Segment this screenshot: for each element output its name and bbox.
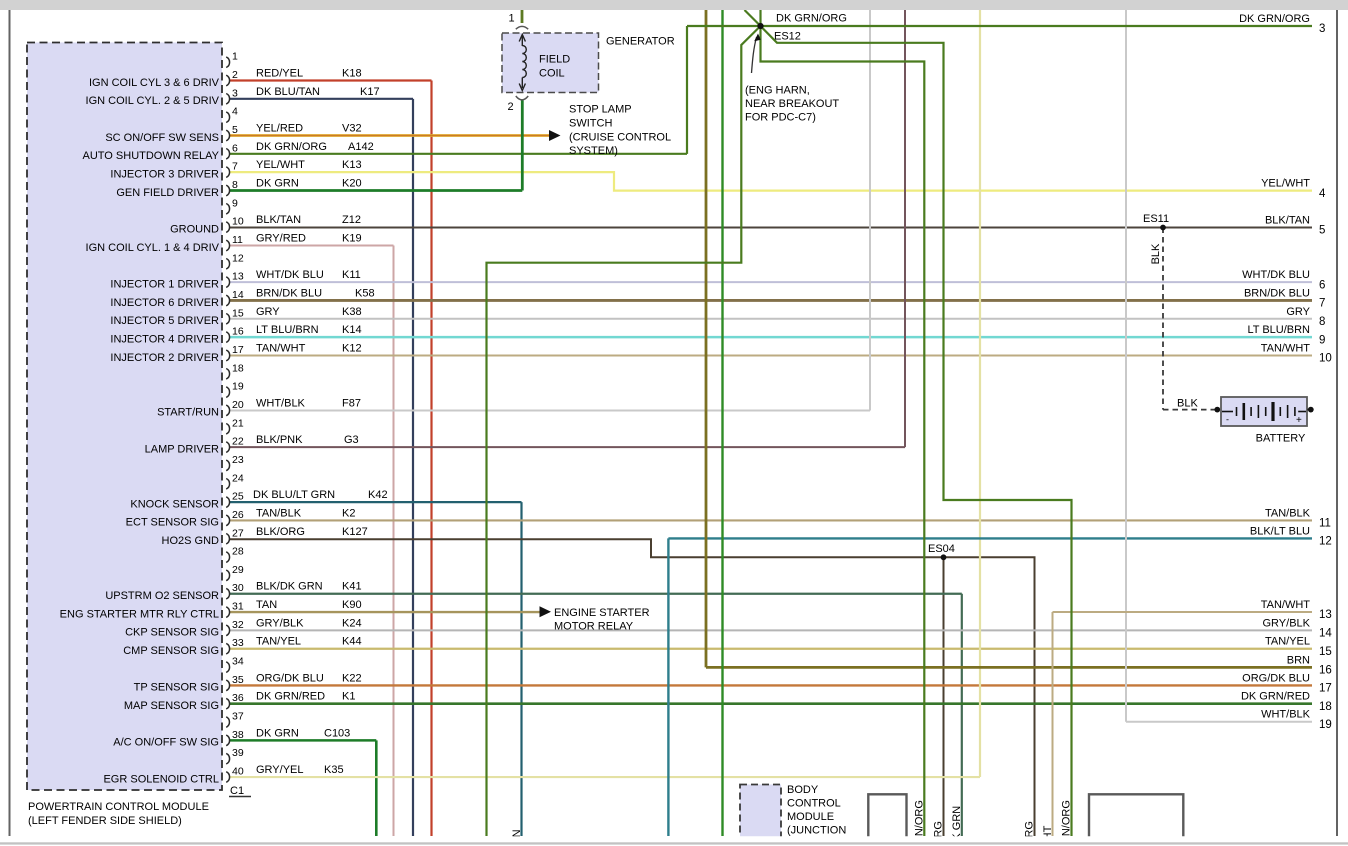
- svg-text:HO2S GND: HO2S GND: [162, 535, 220, 547]
- svg-text:10: 10: [232, 216, 244, 228]
- svg-text:BLK/DK GRN: BLK/DK GRN: [256, 581, 323, 593]
- svg-text:A/C ON/OFF SW SIG: A/C ON/OFF SW SIG: [113, 737, 219, 749]
- svg-text:K44: K44: [342, 636, 362, 648]
- svg-text:C103: C103: [324, 727, 350, 739]
- svg-text:GRY/BLK: GRY/BLK: [1263, 617, 1311, 629]
- svg-text:GRY: GRY: [1286, 306, 1310, 318]
- svg-text:YEL/WHT: YEL/WHT: [256, 159, 305, 171]
- svg-text:17: 17: [232, 344, 244, 356]
- svg-text:K58: K58: [355, 287, 375, 299]
- svg-text:16: 16: [232, 326, 244, 338]
- svg-text:START/RUN: START/RUN: [157, 407, 219, 419]
- svg-text:K24: K24: [342, 617, 362, 629]
- svg-text:F87: F87: [342, 397, 361, 409]
- svg-text:MODULE: MODULE: [787, 811, 834, 823]
- svg-text:ES11: ES11: [1143, 213, 1169, 225]
- svg-text:TAN/BLK: TAN/BLK: [256, 507, 302, 519]
- svg-text:FIELD: FIELD: [539, 54, 570, 66]
- svg-text:TAN/WHT: TAN/WHT: [256, 342, 306, 354]
- svg-text:33: 33: [232, 637, 244, 649]
- svg-text:K41: K41: [342, 581, 362, 593]
- svg-text:Z12: Z12: [342, 214, 361, 226]
- svg-text:UPSTRM O2 SENSOR: UPSTRM O2 SENSOR: [105, 590, 219, 602]
- svg-text:LAMP DRIVER: LAMP DRIVER: [145, 443, 219, 455]
- svg-text:ES12: ES12: [774, 31, 801, 43]
- svg-text:K38: K38: [342, 306, 362, 318]
- svg-text:26: 26: [232, 509, 244, 521]
- svg-text:ENG STARTER MTR RLY CTRL: ENG STARTER MTR RLY CTRL: [60, 608, 219, 620]
- svg-text:K18: K18: [342, 68, 362, 80]
- svg-text:31: 31: [232, 601, 244, 613]
- svg-text:K127: K127: [342, 526, 368, 538]
- svg-text:IGN COIL CYL. 2 & 5 DRIV: IGN COIL CYL. 2 & 5 DRIV: [86, 95, 220, 107]
- svg-text:BLK/TAN: BLK/TAN: [256, 214, 301, 226]
- svg-text:DK GRN: DK GRN: [256, 727, 299, 739]
- svg-text:WHT/DK BLU: WHT/DK BLU: [1242, 269, 1310, 281]
- svg-text:8: 8: [1319, 316, 1325, 328]
- svg-text:TAN/WHT: TAN/WHT: [1261, 342, 1311, 354]
- svg-text:29: 29: [232, 564, 244, 576]
- svg-text:GEN FIELD DRIVER: GEN FIELD DRIVER: [116, 187, 219, 199]
- svg-text:22: 22: [232, 436, 244, 448]
- svg-text:(CRUISE CONTROL: (CRUISE CONTROL: [569, 132, 671, 144]
- svg-text:BLK/PNK: BLK/PNK: [256, 434, 303, 446]
- svg-text:K2: K2: [342, 507, 355, 519]
- svg-text:(LEFT FENDER SIDE SHIELD): (LEFT FENDER SIDE SHIELD): [28, 815, 182, 827]
- svg-text:INJECTOR 1 DRIVER: INJECTOR 1 DRIVER: [110, 278, 219, 290]
- svg-text:GRY/BLK: GRY/BLK: [256, 617, 304, 629]
- svg-text:DK GRN/ORG: DK GRN/ORG: [256, 141, 327, 153]
- svg-text:K17: K17: [360, 86, 380, 98]
- svg-text:32: 32: [232, 619, 244, 631]
- svg-text:V32: V32: [342, 122, 362, 134]
- svg-text:K14: K14: [342, 324, 362, 336]
- svg-text:ORG/DK BLU: ORG/DK BLU: [256, 672, 324, 684]
- svg-text:4: 4: [1319, 188, 1326, 200]
- svg-text:36: 36: [232, 692, 244, 704]
- svg-text:INJECTOR 4 DRIVER: INJECTOR 4 DRIVER: [110, 333, 219, 345]
- svg-text:(ENG HARN,: (ENG HARN,: [745, 85, 810, 97]
- svg-text:14: 14: [1319, 628, 1332, 640]
- svg-text:BLK: BLK: [1150, 243, 1162, 264]
- svg-text:GRY/RED: GRY/RED: [256, 232, 306, 244]
- svg-text:GENERATOR: GENERATOR: [606, 36, 675, 48]
- svg-text:DK GRN: DK GRN: [256, 177, 299, 189]
- svg-text:9: 9: [1319, 334, 1325, 346]
- svg-text:14: 14: [232, 289, 244, 301]
- svg-text:16: 16: [1319, 665, 1332, 677]
- svg-text:3: 3: [1319, 23, 1325, 35]
- svg-text:SWITCH: SWITCH: [569, 118, 612, 130]
- svg-text:K13: K13: [342, 159, 362, 171]
- svg-text:BRN/DK BLU: BRN/DK BLU: [256, 287, 322, 299]
- svg-text:2: 2: [508, 101, 514, 113]
- svg-text:K22: K22: [342, 672, 362, 684]
- svg-text:YEL/WHT: YEL/WHT: [1261, 178, 1310, 190]
- svg-text:12: 12: [232, 252, 244, 264]
- svg-text:7: 7: [232, 161, 238, 173]
- svg-text:BLK/TAN: BLK/TAN: [1265, 215, 1310, 227]
- svg-text:3: 3: [232, 87, 238, 99]
- svg-text:TAN/YEL: TAN/YEL: [256, 636, 301, 648]
- svg-text:21: 21: [232, 417, 244, 429]
- svg-text:INJECTOR 2 DRIVER: INJECTOR 2 DRIVER: [110, 352, 219, 364]
- svg-text:C1: C1: [230, 785, 244, 797]
- svg-text:DK GRN/RED: DK GRN/RED: [1241, 691, 1310, 703]
- svg-text:37: 37: [232, 711, 244, 723]
- svg-text:17: 17: [1319, 683, 1332, 695]
- svg-text:1: 1: [509, 13, 515, 25]
- svg-text:DK GRN/RED: DK GRN/RED: [256, 691, 325, 703]
- svg-text:K42: K42: [368, 489, 388, 501]
- svg-text:NEAR BREAKOUT: NEAR BREAKOUT: [745, 98, 839, 110]
- svg-text:35: 35: [232, 674, 244, 686]
- svg-text:DK BLU/LT GRN: DK BLU/LT GRN: [253, 489, 335, 501]
- svg-text:A142: A142: [348, 141, 374, 153]
- svg-text:LT BLU/BRN: LT BLU/BRN: [256, 324, 319, 336]
- svg-text:19: 19: [232, 381, 244, 393]
- svg-text:15: 15: [232, 307, 244, 319]
- svg-text:24: 24: [232, 472, 244, 484]
- svg-text:RED/YEL: RED/YEL: [256, 68, 303, 80]
- svg-text:BLK: BLK: [1177, 397, 1198, 409]
- svg-text:INJECTOR 6 DRIVER: INJECTOR 6 DRIVER: [110, 297, 219, 309]
- svg-text:6: 6: [232, 142, 238, 154]
- svg-text:GRY/YEL: GRY/YEL: [256, 764, 304, 776]
- svg-text:12: 12: [1319, 536, 1332, 548]
- svg-text:KNOCK SENSOR: KNOCK SENSOR: [130, 498, 219, 510]
- svg-text:BLK/ORG: BLK/ORG: [256, 526, 305, 538]
- svg-text:K35: K35: [324, 764, 344, 776]
- svg-text:CMP SENSOR SIG: CMP SENSOR SIG: [123, 645, 219, 657]
- svg-text:39: 39: [232, 747, 244, 759]
- svg-text:TAN/WHT: TAN/WHT: [1261, 599, 1311, 611]
- svg-text:COIL: COIL: [539, 68, 565, 80]
- svg-text:28: 28: [232, 546, 244, 558]
- svg-text:TAN: TAN: [256, 599, 277, 611]
- svg-text:30: 30: [232, 582, 244, 594]
- svg-text:IGN COIL CYL 3 & 6 DRIV: IGN COIL CYL 3 & 6 DRIV: [89, 77, 220, 89]
- svg-text:13: 13: [1319, 609, 1332, 621]
- svg-text:K1: K1: [342, 691, 355, 703]
- svg-text:DK GRN/ORG: DK GRN/ORG: [776, 13, 847, 25]
- svg-text:MAP SENSOR SIG: MAP SENSOR SIG: [124, 700, 219, 712]
- svg-text:LT BLU/BRN: LT BLU/BRN: [1247, 324, 1310, 336]
- svg-text:GROUND: GROUND: [170, 223, 219, 235]
- svg-text:19: 19: [1319, 719, 1332, 731]
- svg-text:20: 20: [232, 399, 244, 411]
- svg-text:1: 1: [232, 51, 238, 63]
- svg-text:(JUNCTION: (JUNCTION: [787, 824, 846, 836]
- svg-text:BRN/DK BLU: BRN/DK BLU: [1244, 287, 1310, 299]
- svg-text:ORG/DK BLU: ORG/DK BLU: [1242, 672, 1310, 684]
- svg-text:+: +: [1296, 415, 1302, 426]
- svg-text:FOR PDC-C7): FOR PDC-C7): [745, 112, 816, 124]
- svg-text:AUTO SHUTDOWN RELAY: AUTO SHUTDOWN RELAY: [83, 150, 220, 162]
- svg-text:WHT/BLK: WHT/BLK: [1261, 709, 1311, 721]
- svg-text:34: 34: [232, 656, 244, 668]
- svg-text:TAN/BLK: TAN/BLK: [1265, 507, 1311, 519]
- svg-text:G3: G3: [344, 434, 359, 446]
- svg-text:STOP LAMP: STOP LAMP: [569, 104, 632, 116]
- svg-text:ECT SENSOR SIG: ECT SENSOR SIG: [126, 517, 219, 529]
- svg-text:11: 11: [232, 234, 243, 246]
- svg-text:40: 40: [232, 766, 244, 778]
- svg-text:DK BLU/TAN: DK BLU/TAN: [256, 86, 320, 98]
- svg-text:TAN/YEL: TAN/YEL: [1265, 636, 1310, 648]
- svg-text:BATTERY: BATTERY: [1256, 433, 1306, 445]
- svg-text:6: 6: [1319, 279, 1325, 291]
- svg-text:BLK/LT BLU: BLK/LT BLU: [1250, 525, 1310, 537]
- svg-text:DK GRN/ORG: DK GRN/ORG: [1239, 13, 1310, 25]
- svg-text:11: 11: [1319, 518, 1331, 530]
- svg-text:EGR SOLENOID CTRL: EGR SOLENOID CTRL: [103, 773, 219, 785]
- svg-text:SC ON/OFF SW SENS: SC ON/OFF SW SENS: [105, 132, 219, 144]
- svg-text:38: 38: [232, 729, 244, 741]
- svg-text:BRN: BRN: [1287, 654, 1310, 666]
- svg-text:TP SENSOR SIG: TP SENSOR SIG: [134, 682, 219, 694]
- svg-text:CONTROL: CONTROL: [787, 798, 841, 810]
- svg-text:INJECTOR 3 DRIVER: INJECTOR 3 DRIVER: [110, 168, 219, 180]
- svg-text:9: 9: [232, 197, 238, 209]
- svg-text:K11: K11: [342, 269, 361, 281]
- svg-text:23: 23: [232, 454, 244, 466]
- svg-text:CKP SENSOR SIG: CKP SENSOR SIG: [125, 627, 219, 639]
- svg-text:5: 5: [232, 124, 238, 136]
- svg-text:10: 10: [1319, 353, 1332, 365]
- svg-text:7: 7: [1319, 298, 1325, 310]
- svg-text:WHT/DK BLU: WHT/DK BLU: [256, 269, 324, 281]
- svg-text:25: 25: [232, 491, 244, 503]
- svg-text:ENGINE STARTER: ENGINE STARTER: [554, 607, 650, 619]
- svg-text:INJECTOR 5 DRIVER: INJECTOR 5 DRIVER: [110, 315, 219, 327]
- svg-text:GRY: GRY: [256, 306, 280, 318]
- svg-text:K12: K12: [342, 342, 362, 354]
- svg-text:8: 8: [232, 179, 238, 191]
- svg-text:SYSTEM): SYSTEM): [569, 145, 618, 157]
- svg-text:5: 5: [1319, 225, 1325, 237]
- svg-text:-: -: [1226, 415, 1229, 425]
- svg-text:K20: K20: [342, 177, 362, 189]
- svg-text:18: 18: [232, 362, 244, 374]
- svg-text:IGN COIL CYL. 1 & 4 DRIV: IGN COIL CYL. 1 & 4 DRIV: [86, 242, 220, 254]
- svg-text:2: 2: [232, 69, 238, 81]
- svg-text:27: 27: [232, 527, 244, 539]
- svg-text:18: 18: [1319, 701, 1332, 713]
- svg-text:K19: K19: [342, 232, 362, 244]
- svg-text:K90: K90: [342, 599, 362, 611]
- svg-text:BODY: BODY: [787, 784, 819, 796]
- svg-text:MOTOR RELAY: MOTOR RELAY: [554, 621, 634, 633]
- svg-text:ES04: ES04: [928, 543, 955, 555]
- svg-text:YEL/RED: YEL/RED: [256, 122, 303, 134]
- svg-text:13: 13: [232, 271, 244, 283]
- svg-text:WHT/BLK: WHT/BLK: [256, 397, 306, 409]
- svg-text:15: 15: [1319, 646, 1332, 658]
- svg-text:POWERTRAIN CONTROL MODULE: POWERTRAIN CONTROL MODULE: [28, 801, 209, 813]
- svg-text:4: 4: [232, 106, 238, 118]
